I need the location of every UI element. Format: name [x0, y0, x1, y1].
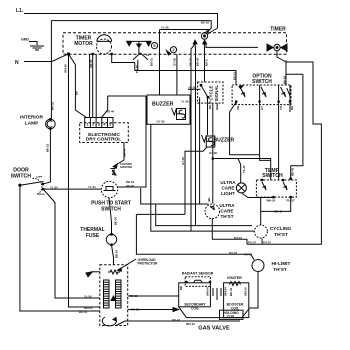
svg-text:BK-62: BK-62: [201, 20, 210, 24]
svg-text:WH-55: WH-55: [267, 198, 276, 202]
svg-text:WH-44: WH-44: [123, 148, 127, 157]
svg-text:BK: BK: [75, 91, 79, 95]
svg-text:ULTRA: ULTRA: [219, 203, 235, 208]
svg-text:RD-42: RD-42: [196, 57, 200, 66]
svg-text:RD-42: RD-42: [291, 167, 295, 176]
svg-text:HI-LIMIT: HI-LIMIT: [272, 261, 291, 267]
svg-text:SIGNAL: SIGNAL: [214, 85, 219, 102]
svg-text:WH-19: WH-19: [186, 322, 195, 326]
svg-text:DRUM: DRUM: [38, 194, 45, 196]
svg-text:SWITCH: SWITCH: [262, 173, 283, 179]
svg-text:TH'ST: TH'ST: [273, 267, 287, 273]
svg-text:BUZZER: BUZZER: [152, 101, 174, 107]
svg-text:BU-10: BU-10: [189, 57, 193, 66]
svg-text:GY-30: GY-30: [157, 120, 165, 124]
svg-text:TN: TN: [279, 106, 283, 110]
svg-text:L1.: L1.: [16, 8, 24, 14]
svg-text:TIMER: TIMER: [270, 27, 286, 33]
svg-text:SWITCH: SWITCH: [11, 173, 32, 179]
svg-text:GN-59: GN-59: [89, 59, 93, 68]
svg-text:LAMP: LAMP: [25, 121, 39, 127]
svg-text:SWITCH: SWITCH: [101, 207, 121, 213]
svg-text:WH-19: WH-19: [244, 287, 248, 296]
svg-text:PU-37: PU-37: [248, 241, 256, 245]
svg-text:PU-56: PU-56: [135, 65, 139, 73]
svg-text:PUSH TO START: PUSH TO START: [91, 201, 131, 207]
svg-text:GY-30: GY-30: [181, 157, 185, 165]
svg-text:GY: GY: [260, 106, 264, 110]
svg-text:RADIANT SENSOR: RADIANT SENSOR: [182, 272, 214, 276]
svg-text:RD-32: RD-32: [130, 294, 139, 298]
svg-text:BU-41: BU-41: [79, 310, 88, 314]
svg-text:BU-10: BU-10: [150, 57, 154, 66]
svg-text:MOTOR: MOTOR: [74, 41, 93, 47]
svg-text:RD-44: RD-44: [106, 110, 115, 114]
svg-text:RD-42: RD-42: [274, 210, 283, 214]
svg-text:PROTECTOR: PROTECTOR: [138, 262, 159, 266]
svg-text:PU-37: PU-37: [263, 241, 271, 245]
svg-text:YL-26: YL-26: [181, 100, 189, 104]
svg-text:GAS VALVE: GAS VALVE: [198, 326, 230, 332]
svg-text:INTERIOR: INTERIOR: [20, 115, 43, 121]
svg-text:CYCLING: CYCLING: [270, 226, 292, 232]
svg-text:TH'ST: TH'ST: [220, 214, 233, 219]
svg-text:OR: OR: [236, 106, 240, 110]
svg-text:THERMAL: THERMAL: [80, 227, 104, 233]
svg-text:GROUND: GROUND: [120, 165, 132, 169]
svg-text:LAMP: LAMP: [36, 175, 43, 178]
svg-text:COIL: COIL: [191, 306, 199, 310]
svg-text:BE-54: BE-54: [114, 217, 118, 225]
svg-text:BU-41: BU-41: [172, 318, 181, 322]
svg-text:BK-32: BK-32: [131, 307, 140, 311]
svg-text:BE-54: BE-54: [115, 250, 119, 258]
svg-text:BK-22: BK-22: [46, 143, 50, 152]
svg-text:FUSE: FUSE: [86, 233, 100, 239]
svg-text:YL-34: YL-34: [88, 185, 96, 189]
svg-text:PU-37: PU-37: [244, 253, 252, 257]
svg-text:BK-62: BK-62: [283, 75, 287, 84]
svg-text:WH-34: WH-34: [224, 287, 228, 296]
svg-text:YL-26: YL-26: [188, 86, 196, 90]
svg-text:BK-60: BK-60: [126, 184, 135, 188]
svg-text:COIL: COIL: [227, 315, 235, 319]
svg-text:GY-30: GY-30: [209, 151, 217, 155]
svg-text:COIL: COIL: [231, 306, 239, 310]
svg-text:PU-41: PU-41: [233, 72, 237, 80]
svg-text:WH-34: WH-34: [206, 287, 210, 296]
svg-text:CARE: CARE: [221, 186, 234, 191]
svg-text:N: N: [15, 60, 19, 66]
svg-text:PU-37: PU-37: [234, 236, 242, 240]
svg-text:BU-10: BU-10: [208, 100, 212, 109]
svg-text:YL-34: YL-34: [50, 186, 58, 190]
svg-text:DOOR: DOOR: [13, 167, 29, 173]
svg-text:PU-37: PU-37: [229, 251, 237, 255]
svg-text:YL-26: YL-26: [161, 26, 169, 30]
svg-text:BUZZER: BUZZER: [214, 137, 235, 143]
svg-text:TH'ST: TH'ST: [274, 232, 288, 238]
svg-text:DRY CONTROL: DRY CONTROL: [86, 137, 122, 143]
svg-text:LIGHT: LIGHT: [221, 191, 235, 196]
svg-text:T2: T2: [284, 60, 288, 64]
svg-text:WH-39: WH-39: [64, 64, 68, 73]
svg-text:SWITCH: SWITCH: [252, 79, 272, 85]
svg-text:PU-37: PU-37: [287, 198, 295, 202]
svg-text:YL-34: YL-34: [84, 295, 92, 299]
svg-text:ULTRA: ULTRA: [220, 180, 236, 185]
svg-text:BK-22: BK-22: [51, 101, 55, 110]
svg-text:BU-2: BU-2: [205, 59, 209, 66]
svg-text:RD: RD: [179, 286, 183, 290]
svg-text:GND: GND: [21, 38, 29, 42]
svg-text:IGNITER: IGNITER: [227, 276, 242, 280]
svg-text:RD: RD: [290, 106, 294, 110]
svg-text:CARE: CARE: [220, 209, 233, 214]
svg-text:CYCLE: CYCLE: [209, 86, 214, 101]
svg-text:BK-33: BK-33: [229, 287, 233, 296]
svg-text:BK: BK: [207, 197, 211, 201]
svg-text:C2: C2: [146, 53, 150, 57]
svg-text:YL-45: YL-45: [242, 165, 246, 173]
svg-text:GY-30: GY-30: [173, 58, 177, 66]
